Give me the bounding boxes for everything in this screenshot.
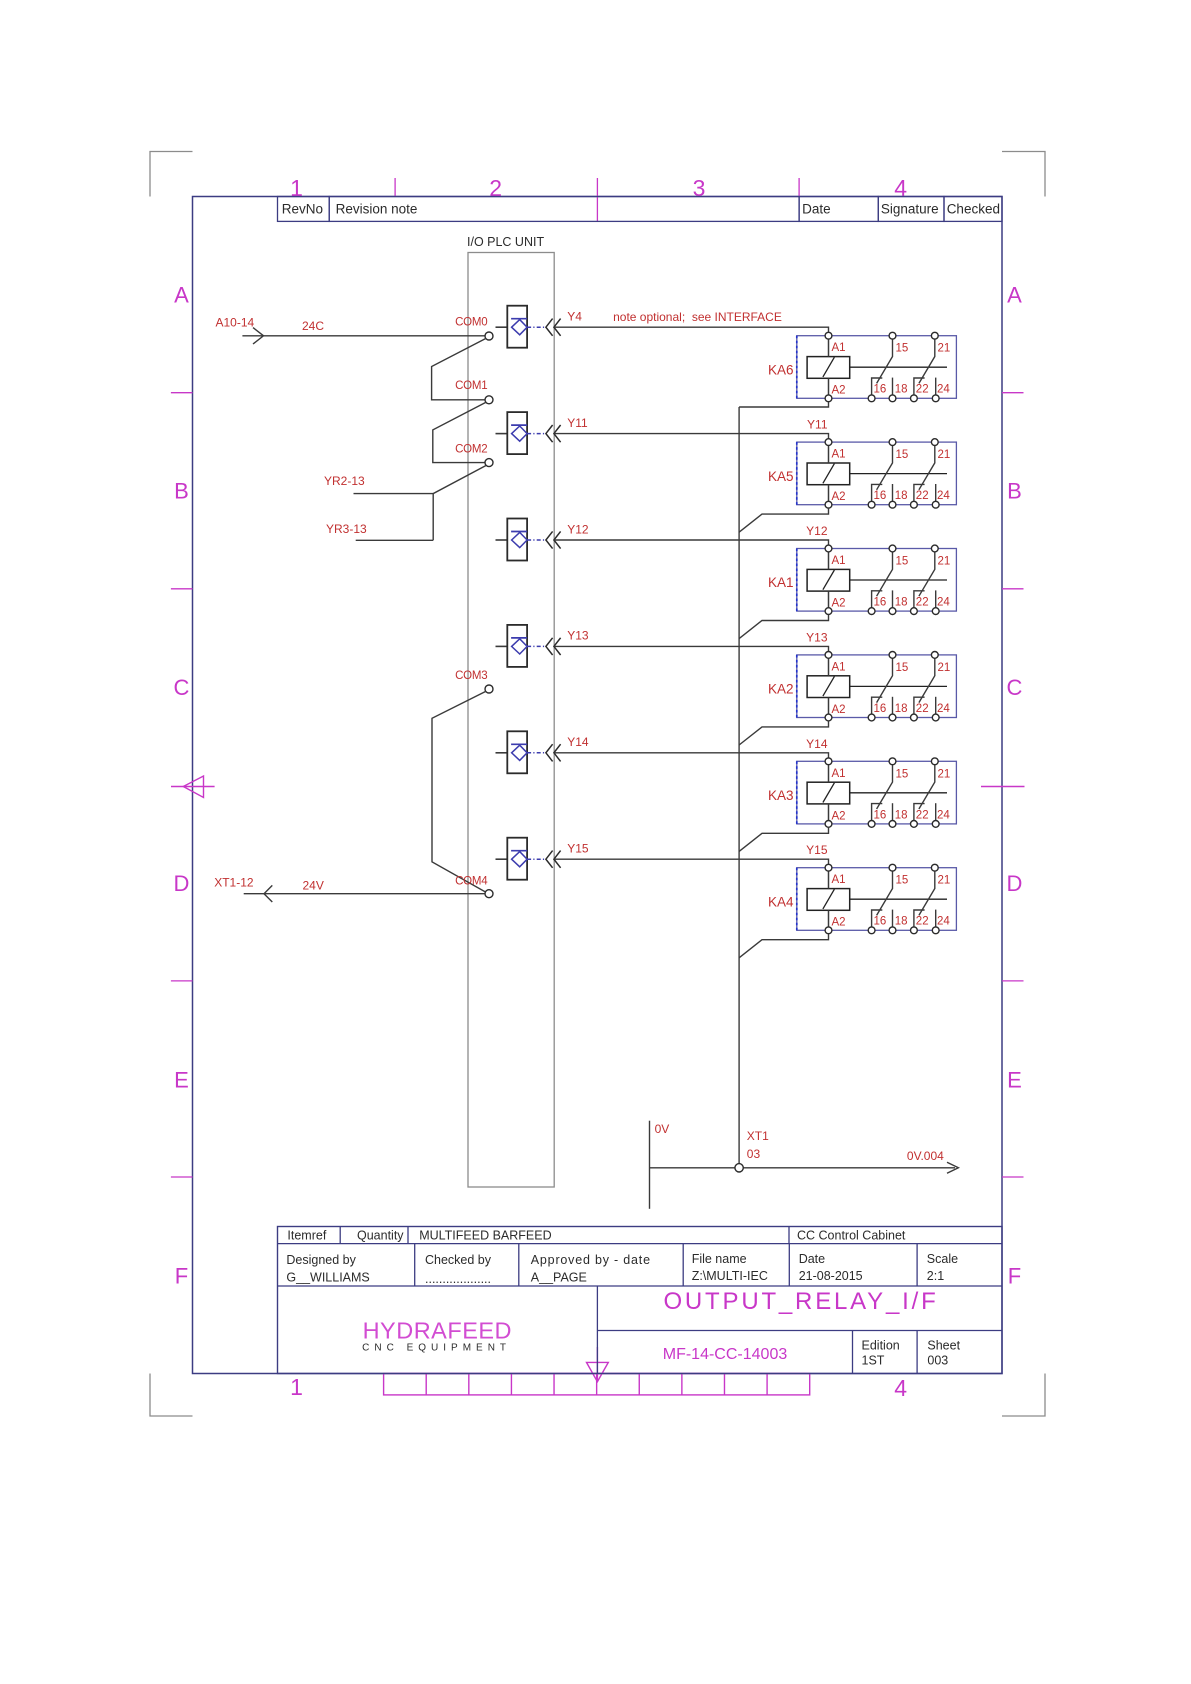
svg-text:YR3-13: YR3-13 (326, 522, 367, 536)
svg-text:Checked: Checked (947, 202, 1000, 217)
svg-text:Y12: Y12 (806, 524, 828, 538)
svg-text:24: 24 (937, 384, 950, 396)
svg-text:Y11: Y11 (807, 418, 828, 432)
wire 24C from A10-14 to COM0 (242, 328, 484, 344)
svg-text:Y13: Y13 (567, 629, 589, 643)
svg-text:A1: A1 (832, 449, 846, 461)
svg-text:OUTPUT_RELAY_I/F: OUTPUT_RELAY_I/F (663, 1288, 938, 1315)
svg-text:Checked by: Checked by (425, 1253, 492, 1267)
svg-text:A1: A1 (832, 768, 846, 780)
optocoupler output Y13 (496, 625, 561, 667)
svg-text:note optional; see INTERFACE: note optional; see INTERFACE (613, 310, 782, 324)
wire link COM1 to COM2 (433, 402, 486, 462)
svg-text:24C: 24C (302, 319, 324, 333)
svg-text:16: 16 (874, 916, 887, 928)
wire KA3 A2 to 0V bus (739, 827, 828, 851)
svg-text:D: D (174, 871, 190, 896)
svg-text:MF-14-CC-14003: MF-14-CC-14003 (663, 1346, 788, 1363)
I/O PLC unit U1 (467, 235, 554, 1187)
svg-text:21: 21 (938, 449, 951, 461)
svg-text:A1: A1 (832, 342, 846, 354)
svg-text:1: 1 (290, 1374, 303, 1400)
terminal XT1 pin 03 (735, 1129, 769, 1172)
svg-text:I/O PLC UNIT: I/O PLC UNIT (467, 235, 544, 249)
svg-text:21: 21 (938, 875, 951, 887)
wire KA5 A2 to 0V bus (739, 508, 828, 532)
svg-text:18: 18 (895, 916, 908, 928)
wire 0V rail (650, 1162, 959, 1173)
svg-text:22: 22 (916, 703, 929, 715)
svg-text:16: 16 (874, 384, 887, 396)
terminal COM1 (455, 380, 493, 404)
svg-text:15: 15 (896, 556, 909, 568)
svg-text:2:1: 2:1 (927, 1269, 944, 1283)
terminal COM2 (455, 443, 493, 466)
svg-text:1ST: 1ST (862, 1354, 885, 1368)
svg-text:21: 21 (938, 662, 951, 674)
svg-text:File name: File name (692, 1252, 747, 1266)
optocoupler output Y4 (496, 306, 561, 348)
svg-text:18: 18 (895, 384, 908, 396)
svg-text:Y14: Y14 (567, 735, 589, 749)
svg-text:...................: ................... (425, 1272, 491, 1286)
svg-text:CNC EQUIPMENT: CNC EQUIPMENT (362, 1343, 511, 1354)
svg-text:Y12: Y12 (567, 522, 589, 536)
svg-text:E: E (174, 1067, 189, 1092)
svg-text:Y14: Y14 (806, 737, 828, 751)
svg-text:15: 15 (896, 875, 909, 887)
svg-text:F: F (175, 1264, 188, 1289)
svg-text:MULTIFEED BARFEED: MULTIFEED BARFEED (419, 1229, 551, 1243)
svg-text:22: 22 (916, 597, 929, 609)
svg-text:F: F (1008, 1264, 1021, 1289)
wire KA2 A2 to 0V bus (739, 721, 828, 745)
wire Y11 to relay A1 (555, 434, 829, 443)
svg-text:C: C (174, 675, 190, 700)
terminal COM3 (455, 670, 493, 693)
svg-text:15: 15 (896, 662, 909, 674)
relay KA2 (797, 652, 957, 721)
svg-text:24: 24 (937, 809, 950, 821)
svg-text:24: 24 (937, 703, 950, 715)
optocoupler output Y14 (496, 731, 561, 773)
svg-text:15: 15 (896, 343, 909, 355)
svg-text:15: 15 (896, 768, 909, 780)
relay KA6 (797, 332, 957, 401)
svg-text:XT1: XT1 (747, 1129, 769, 1143)
svg-text:COM1: COM1 (455, 380, 487, 392)
wire Y14 to relay A1 (555, 753, 829, 762)
svg-text:22: 22 (916, 490, 929, 502)
svg-text:B: B (174, 479, 189, 504)
svg-text:Sheet: Sheet (927, 1339, 960, 1353)
svg-text:24: 24 (937, 490, 950, 502)
svg-text:A1: A1 (832, 555, 846, 567)
wire Y12 to relay A1 (555, 540, 829, 549)
svg-text:COM2: COM2 (455, 443, 487, 455)
relay KA1 (797, 545, 957, 614)
svg-text:22: 22 (916, 809, 929, 821)
net 0V stub (650, 1121, 670, 1209)
terminal COM4 (455, 876, 493, 898)
svg-text:A: A (174, 283, 189, 308)
svg-text:XT1-12: XT1-12 (214, 876, 254, 890)
svg-text:KA6: KA6 (768, 362, 794, 377)
svg-text:Date: Date (799, 1252, 825, 1266)
svg-text:Z:\MULTI-IEC: Z:\MULTI-IEC (692, 1269, 768, 1283)
wire YR3-13 (356, 539, 434, 541)
wire Y13 to relay A1 (555, 646, 829, 655)
svg-text:HYDRAFEED: HYDRAFEED (363, 1318, 512, 1344)
svg-text:Itemref: Itemref (287, 1229, 326, 1243)
svg-text:21: 21 (938, 768, 951, 780)
optocoupler output Y15 (496, 838, 561, 880)
svg-text:COM0: COM0 (455, 317, 487, 329)
terminal COM0 (455, 317, 493, 340)
svg-text:22: 22 (916, 916, 929, 928)
svg-text:COM4: COM4 (455, 876, 488, 888)
svg-text:YR2-13: YR2-13 (324, 474, 365, 488)
relay KA3 (797, 758, 957, 827)
svg-text:16: 16 (874, 490, 887, 502)
svg-text:A2: A2 (832, 385, 846, 397)
svg-text:16: 16 (874, 809, 887, 821)
bus 0V vertical (738, 407, 740, 1164)
svg-text:A2: A2 (832, 810, 846, 822)
svg-text:E: E (1007, 1067, 1022, 1092)
svg-text:G__WILLIAMS: G__WILLIAMS (286, 1271, 369, 1285)
optocoupler output Y12 (496, 519, 561, 561)
svg-text:Y11: Y11 (567, 416, 588, 430)
wire junction YR2/YR3 to COM2 (433, 466, 486, 541)
svg-text:16: 16 (874, 703, 887, 715)
svg-text:CC Control Cabinet: CC Control Cabinet (797, 1229, 906, 1243)
svg-text:Scale: Scale (927, 1252, 958, 1266)
svg-text:18: 18 (895, 809, 908, 821)
wire KA1 A2 to 0V bus (739, 615, 828, 639)
svg-text:COM3: COM3 (455, 670, 487, 682)
svg-text:Y15: Y15 (806, 843, 828, 857)
svg-text:Quantity: Quantity (357, 1229, 404, 1243)
svg-text:KA1: KA1 (768, 575, 794, 590)
svg-text:D: D (1007, 871, 1023, 896)
svg-text:KA2: KA2 (768, 682, 794, 697)
svg-text:Designed by: Designed by (286, 1253, 356, 1267)
wire YR2-13 (354, 493, 434, 495)
wire Y4 to relay A1 (555, 327, 829, 336)
svg-text:Edition: Edition (862, 1339, 900, 1353)
svg-text:A1: A1 (832, 661, 846, 673)
svg-text:Revision note: Revision note (336, 202, 418, 217)
svg-text:21: 21 (938, 556, 951, 568)
svg-text:A2: A2 (832, 598, 846, 610)
svg-text:C: C (1007, 675, 1023, 700)
svg-text:16: 16 (874, 597, 887, 609)
svg-text:24V: 24V (303, 879, 324, 893)
optocoupler output Y11 (496, 412, 561, 454)
wire KA4 A2 to 0V bus (739, 934, 828, 958)
svg-text:18: 18 (895, 703, 908, 715)
svg-text:003: 003 (927, 1354, 948, 1368)
svg-text:15: 15 (896, 449, 909, 461)
svg-text:B: B (1007, 479, 1022, 504)
relay KA4 (797, 864, 957, 933)
wire KA6 A2 to 0V bus (739, 402, 828, 407)
svg-text:A2: A2 (832, 917, 846, 929)
svg-text:A__PAGE: A__PAGE (531, 1271, 587, 1285)
svg-text:18: 18 (895, 490, 908, 502)
svg-text:Y15: Y15 (567, 842, 589, 856)
wire 24V from COM4 to XT1-12 (244, 885, 485, 902)
svg-text:A10-14: A10-14 (216, 315, 255, 329)
svg-text:KA3: KA3 (768, 788, 794, 803)
svg-text:Approved by - date: Approved by - date (531, 1253, 651, 1267)
svg-text:RevNo: RevNo (282, 202, 323, 217)
svg-text:03: 03 (747, 1147, 761, 1161)
svg-text:KA4: KA4 (768, 894, 794, 909)
svg-text:22: 22 (916, 384, 929, 396)
svg-text:4: 4 (894, 1375, 907, 1401)
svg-text:KA5: KA5 (768, 469, 794, 484)
svg-text:21-08-2015: 21-08-2015 (799, 1269, 863, 1283)
wire link COM3 to COM4 (432, 691, 486, 892)
svg-text:A2: A2 (832, 704, 846, 716)
svg-text:21: 21 (938, 343, 951, 355)
wire link COM0 to COM1 (432, 338, 487, 400)
relay KA5 (797, 439, 957, 508)
svg-text:Y13: Y13 (806, 630, 828, 644)
svg-text:Date: Date (802, 202, 831, 217)
svg-text:18: 18 (895, 597, 908, 609)
svg-text:A2: A2 (832, 491, 846, 503)
svg-text:0V.004: 0V.004 (907, 1149, 944, 1163)
svg-text:24: 24 (937, 597, 950, 609)
svg-text:A1: A1 (832, 874, 846, 886)
svg-text:Y4: Y4 (567, 310, 582, 324)
svg-text:0V: 0V (655, 1122, 670, 1136)
svg-text:A: A (1007, 283, 1022, 308)
svg-text:Signature: Signature (881, 202, 939, 217)
wire Y15 to relay A1 (555, 859, 829, 868)
svg-text:24: 24 (937, 916, 950, 928)
